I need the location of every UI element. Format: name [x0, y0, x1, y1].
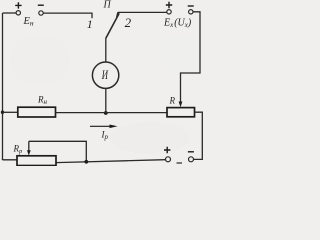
wiper arrowhead onto R	[179, 102, 183, 108]
terminal + of Ex	[167, 10, 171, 14]
current arrow Ip	[90, 125, 111, 127]
terminal + of battery	[166, 157, 171, 162]
minus sign battery	[188, 151, 194, 153]
rheostat Rp box	[17, 156, 56, 166]
rheostat wiper arrow	[28, 141, 30, 151]
wiper arrowhead onto Rp	[27, 150, 31, 155]
svg-text:И: И	[101, 67, 108, 82]
wire left vertical rail	[2, 13, 4, 160]
wire wiper loop over to bottom rail	[29, 141, 87, 162]
svg-text:1: 1	[87, 17, 93, 31]
minus sign Ex	[188, 5, 194, 7]
plus sign Ex	[166, 2, 172, 8]
minus sign En	[38, 4, 44, 6]
junction dot bottom rail	[84, 160, 88, 164]
resistor Rn box	[18, 107, 56, 117]
junction dot left rail	[1, 111, 4, 114]
galvanometer И circle	[92, 62, 118, 88]
wire Ex minus down right side	[181, 12, 201, 102]
dash between battery terminals	[177, 162, 183, 164]
switch contact 1 tick	[91, 13, 93, 19]
svg-text:2: 2	[125, 15, 132, 30]
plus sign battery	[164, 147, 170, 153]
switch contact 2 tick	[117, 12, 118, 17]
wire top-left from + terminal	[3, 12, 17, 14]
terminal + of En	[16, 11, 20, 15]
wire galvanometer to middle rail	[105, 88, 107, 113]
wire contact 2 to Ex plus	[118, 11, 167, 13]
wire left rail bottom corner to Rp	[3, 159, 18, 161]
bottom rail from Rp to battery +	[56, 160, 165, 163]
svg-text:R: R	[169, 96, 176, 106]
terminal - of Ex	[189, 10, 193, 14]
plus sign En	[15, 2, 21, 8]
terminal - of battery	[189, 157, 194, 162]
junction dot middle rail	[104, 111, 108, 115]
wire left rail to Rn	[3, 111, 18, 113]
wire En minus to switch contact 1	[43, 12, 92, 14]
terminal - of En	[39, 11, 43, 15]
wire Rn to R	[56, 112, 168, 114]
svg-text:Eн: Eн	[23, 16, 34, 28]
wire switch pivot to galvanometer	[105, 39, 107, 63]
resistor R box (potentiometer)	[167, 108, 195, 117]
svg-text:П: П	[103, 0, 112, 11]
switch blade	[106, 13, 120, 38]
wire R right to bottom right corner	[194, 112, 203, 159]
svg-text:Ex(Ux): Ex(Ux)	[163, 18, 192, 30]
